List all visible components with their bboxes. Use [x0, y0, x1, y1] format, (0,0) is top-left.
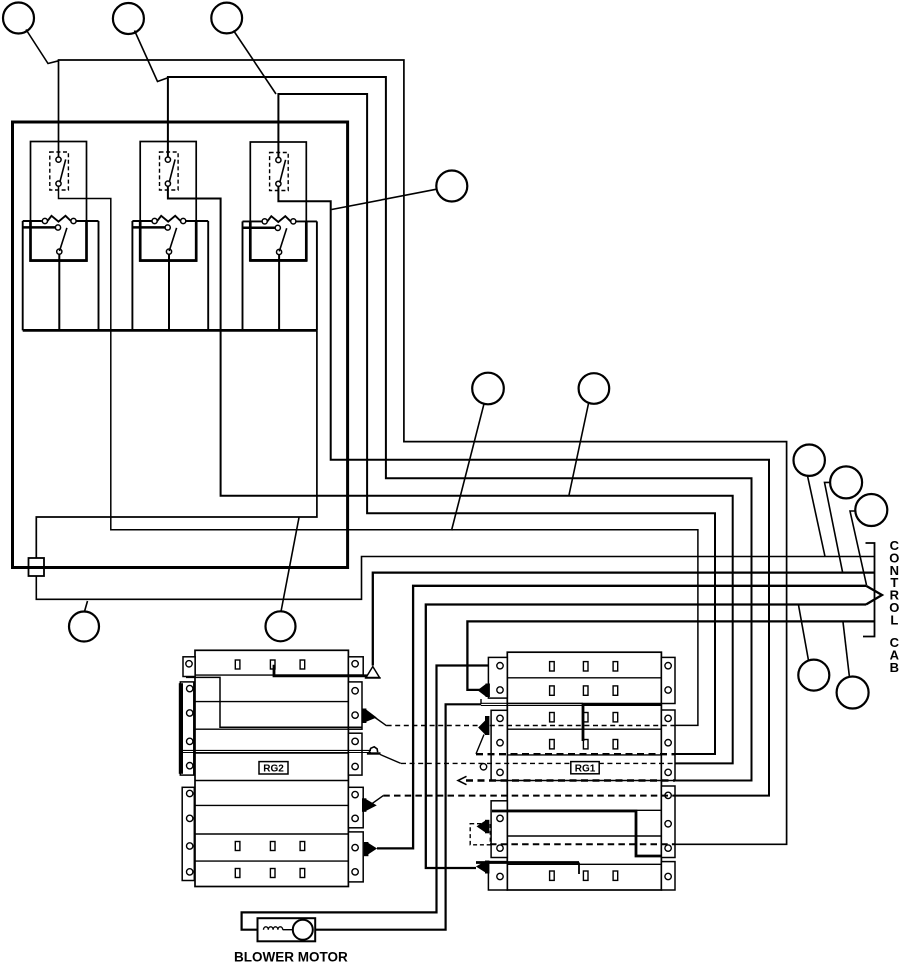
unit 3 outer loop left wire [242, 221, 244, 330]
dashed wire D5 (RG2 T4 to unit3 aux drop, y795.6) [383, 795, 675, 797]
wire: unit 2 aux output to RG1 right side (via long run) [168, 186, 733, 763]
dashed wire D1 (RG2 T2 to RG1 right, y725) [387, 725, 675, 727]
unit 2 resistor box [140, 221, 196, 261]
svg-text:BLOWER MOTOR: BLOWER MOTOR [234, 950, 348, 962]
callout circle 10 (lower right) [798, 660, 829, 691]
switch S1 unit 3 bottom contact [276, 181, 281, 186]
RG1 left bracket 2 [491, 710, 507, 780]
RG2 terminal T4 [362, 798, 366, 812]
leader line callout 1 [26, 30, 59, 64]
wire: fuse square to control cab line [36, 557, 874, 600]
leader line callout 5 [452, 404, 485, 531]
RG2 upper left black bar [179, 683, 183, 774]
switch S2 unit 2 pivot contact [165, 225, 170, 230]
RG1 right bracket 1 [661, 657, 675, 703]
callout circle 12 (bottom left) [69, 612, 99, 642]
RG1 slab 2 slots [550, 686, 555, 695]
switch S1 unit 1 bottom contact [56, 181, 61, 186]
unit 1 pivot feed wire [23, 226, 56, 229]
RG1 terminal TL2 [485, 820, 489, 834]
unit 2 outer loop left wire [131, 221, 133, 330]
RG2 right bracket 2 [348, 733, 362, 775]
RG1 slab 9 slots [550, 871, 555, 880]
switch S1 unit 3 top contact [276, 157, 281, 162]
wire 1: switch unit 1 coil feed to top bus, right side drop to RG1 lower right [59, 60, 787, 844]
RG1 internal thick jumper middle [492, 810, 661, 856]
wire: control cab run (arrow bottom) to RG1 bottom left terminal [426, 605, 866, 869]
switch S2 unit 2 blade [169, 228, 176, 251]
switch unit 2 contactor dashed box [160, 152, 179, 190]
switch S1 unit 1 blade [60, 159, 66, 182]
switch S2 unit 2 output wire to bus [168, 254, 170, 330]
RG2 slab 9 slots [235, 869, 240, 878]
RG2 terminal T4 link to dashed wire [369, 796, 383, 806]
resistor grid RG1 body [507, 652, 661, 890]
callout circle 5 (middle) [472, 373, 504, 405]
switch unit 1 enclosure [31, 142, 87, 262]
RG2 internal double line wire [182, 750, 371, 752]
RG2 terminal T3 link to dashed wire [380, 754, 401, 763]
RG2 terminal T2 link to dashed wire [375, 718, 387, 726]
unit 3 outer loop right wire [316, 221, 318, 330]
main enclosure box [13, 122, 348, 568]
RG2 grid slab lines [195, 675, 348, 861]
RG1 internal thick jumper top [582, 705, 662, 741]
RG1 right bracket 3 [661, 786, 675, 858]
RG2 upper left bracket [180, 682, 194, 775]
RG1 bottom left plate [488, 862, 507, 890]
wire: blower motor left lead to RG1 top left plate [242, 666, 489, 930]
leader line callout 13 [281, 518, 299, 612]
switch S2 unit 2 bottom contact [166, 249, 171, 254]
unit 3 pivot feed wire [243, 227, 276, 230]
RG1 terminal TL1 [485, 716, 489, 735]
leader line callout 3 [234, 31, 277, 95]
wire 2: switch unit 2 coil feed to top bus, drop to RG1 right [168, 77, 752, 781]
switch unit 1 contactor dashed box [50, 152, 69, 190]
RG1 left bracket 3 [491, 801, 507, 858]
control cab bracket [863, 543, 875, 637]
leader line callout 9 [850, 511, 867, 585]
blower motor rotor circle [293, 920, 313, 940]
resistor R1 unit 1 right terminal [71, 218, 76, 223]
leader line callout 11 [843, 622, 850, 678]
RG1 internal double line wire (left entry) [481, 703, 583, 705]
unit 3 resistor box [250, 221, 306, 260]
leader line callout 4 [332, 189, 437, 209]
callout circle 1 (top left) [3, 3, 34, 34]
RG2 right bracket 3 [348, 787, 363, 828]
svg-text:RG2: RG2 [263, 763, 284, 774]
unit 2 outer loop right wire [207, 221, 209, 330]
callout circle 13 (bottom middle) [266, 611, 296, 641]
RG1 terminal TL3 [485, 861, 489, 874]
dashed wire D6 (RG1 TL2 to wire1 drop, y844.3) [490, 843, 675, 845]
RG1 slab 1 slots [550, 662, 555, 671]
unit 1 resistor box [31, 221, 87, 261]
dashed wire D3 (RG2 T3 to unit2 aux drop, y763.4) [401, 762, 675, 764]
RG2 slab 8 slots [235, 842, 240, 851]
wire: control cab run to RG1 upper left terminal [467, 621, 874, 690]
switch unit 3 enclosure [250, 142, 306, 261]
dashed wire D2 (RG1 TL1 to wire3 drop, y754) [476, 753, 675, 755]
blower motor coil to rotor link [283, 929, 293, 931]
RG1 slab 3 slots [550, 713, 555, 722]
resistor grid RG2 body [195, 650, 348, 886]
RG1 terminal TL0 (upper left) [486, 684, 490, 698]
wire: control cab run to RG2 top right terminal [373, 573, 875, 666]
label RG2 [259, 762, 288, 774]
switch unit 3 contactor dashed box [270, 153, 289, 191]
callout circle 9 (upper right) [855, 494, 887, 526]
resistor R3 unit 3 row [243, 216, 317, 222]
RG1 internal thick jumper bottom [476, 861, 579, 864]
RG2 internal thin wire [186, 677, 362, 727]
leader line callout 6 [569, 404, 589, 496]
RG2 terminal T5 [364, 842, 368, 856]
RG1 terminal TL1 link to dashed wire [476, 735, 484, 754]
RG2 right bracket 4 [348, 832, 363, 882]
svg-text:L: L [890, 612, 898, 627]
RG1 top left mounting plate [488, 657, 507, 698]
switch S2 unit 3 bottom contact [277, 249, 282, 254]
RG2 top right mounting plate [348, 657, 363, 675]
callout circle 4 (right of switch units) [436, 171, 467, 202]
RG2 terminal T2 [362, 709, 366, 724]
RG1 bottom right plate [661, 862, 675, 890]
callout circle 8 (upper right) [830, 466, 862, 498]
control cab cable arrowhead [866, 586, 882, 605]
switch S1 unit 1 top contact [56, 157, 61, 162]
wire: unit 1 aux output to RG1 right side (via long run) [59, 186, 698, 725]
callout circle 6 (middle) [579, 373, 610, 404]
unit 1 outer loop left wire [22, 221, 24, 330]
resistor R2 unit 2 right terminal [181, 218, 186, 223]
blower motor right lead hook at RG1 bracket [480, 699, 482, 704]
switch S1 unit 2 top contact [165, 157, 170, 162]
resistor R2 unit 2 left terminal [152, 218, 157, 223]
svg-text:RG1: RG1 [575, 763, 596, 774]
resistor R3 unit 3 right terminal [291, 219, 296, 224]
switch S2 unit 3 output wire to bus [278, 255, 280, 331]
RG2 internal jumper thick wire [273, 665, 377, 676]
leader line callout 8 [825, 482, 843, 571]
switch S1 unit 2 bottom contact [165, 181, 170, 186]
wire: unit 3 aux output to RG1 right side (via long run) [278, 186, 769, 795]
switch S1 unit 3 blade [280, 160, 286, 183]
RG2 terminal T1 (top right, to control cab wire) [366, 667, 380, 678]
leader line callout 12 [85, 601, 88, 612]
wire: bus to fuse square (upper part) [36, 330, 317, 558]
leader line callout 10 [799, 605, 809, 661]
bottom bus wire inside main box [23, 329, 317, 332]
switch S2 unit 1 bottom contact [57, 249, 62, 254]
callout circle 11 (lower right) [837, 677, 869, 709]
resistor R2 unit 2 row [132, 216, 208, 222]
switch S1 unit 2 blade [169, 159, 175, 182]
fuse square on box bottom left [29, 558, 45, 576]
RG1 grid slab lines [507, 678, 661, 865]
unit 2 pivot feed wire [132, 226, 165, 229]
switch S2 unit 3 blade [279, 228, 286, 251]
RG2 terminal T3 (hat) [369, 747, 377, 753]
switch S2 unit 3 pivot contact [275, 225, 280, 230]
resistor R1 unit 1 left terminal [42, 218, 47, 223]
callout circle 2 [113, 3, 144, 34]
blower motor coil [264, 927, 283, 930]
switch S2 unit 1 blade [60, 228, 67, 251]
switch S2 unit 1 output wire to bus [58, 254, 60, 330]
RG1 left hook connector for dashed wire [480, 764, 486, 770]
svg-text:B: B [890, 660, 899, 675]
RG2 lower left bracket [182, 787, 194, 880]
leader line callout 7 [808, 476, 826, 557]
RG1 slab 4 slots [550, 740, 555, 749]
leader line callout 2 [135, 31, 168, 82]
RG2 top slab slots [235, 660, 240, 669]
blower motor box [258, 918, 316, 941]
switch unit 2 enclosure [140, 142, 196, 262]
callout circle 3 [211, 3, 242, 34]
wire 3: switch unit 3 coil feed to top bus, drop to RG1 right [278, 94, 715, 754]
dashed wire D4 arrowhead [458, 776, 467, 784]
RG2 right bracket 1 [348, 682, 362, 729]
resistor R1 unit 1 row [23, 216, 99, 222]
RG2 top left mounting plate [183, 657, 195, 677]
RG1 right bracket 2 [661, 710, 675, 781]
wire: blower motor right lead to RG1 left side [315, 704, 481, 929]
wire: control cab run (arrow top) to RG2 lower right terminal [377, 586, 866, 849]
resistor R3 unit 3 left terminal [262, 219, 267, 224]
switch S2 unit 1 pivot contact [55, 225, 60, 230]
callout circle 7 (upper right) [794, 445, 825, 476]
unit 1 outer loop right wire [98, 221, 100, 330]
dashed box around RG1 terminal TL2 [470, 824, 490, 845]
dashed wire D4 with arrowhead (to wire2 drop, y780.5) [466, 779, 675, 781]
label RG1 [571, 762, 599, 774]
